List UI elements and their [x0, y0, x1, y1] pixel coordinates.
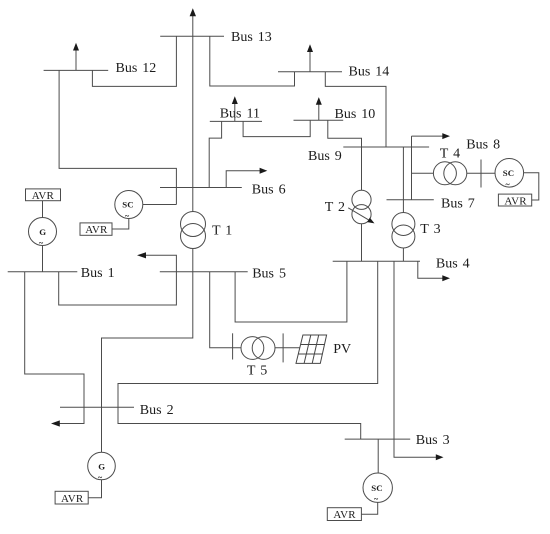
wire SC6 to AVR [112, 219, 129, 230]
wire T1 to Bus 5 [192, 249, 194, 272]
bus bar Bus 1 [8, 271, 78, 273]
wire G1 to Bus 1 [42, 246, 44, 272]
bus bar Bus 3 [345, 438, 411, 440]
svg-text:Bus 2: Bus 2 [140, 403, 174, 418]
svg-text:Bus 5: Bus 5 [252, 267, 286, 282]
svg-text:Bus 8: Bus 8 [466, 138, 500, 153]
isolator tick left of T5 [232, 333, 234, 359]
transformer T4 [433, 162, 456, 185]
svg-text:Bus 4: Bus 4 [436, 257, 470, 272]
wire Bus 12 to Bus 13 [92, 36, 176, 86]
transformer T2 [352, 190, 371, 209]
svg-text:AVR: AVR [504, 195, 527, 207]
wire Bus 13 to Bus 14 [210, 36, 295, 86]
svg-text:PV: PV [333, 342, 351, 357]
svg-text:T 1: T 1 [212, 224, 232, 239]
wire SC lead to Bus 6 [143, 204, 177, 206]
bus bar Bus 6 [160, 187, 242, 189]
bus bar Bus 11 [210, 120, 262, 122]
bus bar Bus 13 [160, 35, 224, 37]
wire Bus 5 to Bus 2 and G2 [102, 272, 193, 452]
wire Bus 5 to T5 [210, 272, 241, 348]
bus bar Bus 10 [294, 119, 344, 121]
wire Bus 4 to Bus 3 with right arrow [394, 261, 438, 457]
svg-text:Bus 14: Bus 14 [349, 65, 390, 80]
arrow top of feeder [190, 8, 196, 16]
wire Bus 1 to Bus 5 with left arrow [59, 255, 177, 305]
svg-text:Bus 7: Bus 7 [441, 197, 475, 212]
transformer T1 [181, 212, 206, 237]
bus bar Bus 4 [333, 260, 420, 262]
wire Bus 11 to Bus 10 [243, 120, 310, 136]
arrow up at Bus 11 [234, 102, 236, 121]
wire Bus 5 to Bus 4 [235, 261, 347, 322]
arrow up at Bus 10 [318, 103, 320, 120]
arrow right at Bus 6 [226, 171, 261, 188]
generator G at Bus 1 [29, 218, 57, 246]
wire SC8 to AVR [524, 173, 539, 200]
wire AVR1 to G1 [42, 201, 44, 218]
svg-text:SC: SC [371, 483, 382, 493]
wire Bus 9 to T3 [402, 147, 404, 213]
svg-text:Bus 13: Bus 13 [231, 30, 272, 45]
svg-text:AVR: AVR [85, 224, 108, 236]
svg-text:Bus 12: Bus 12 [116, 61, 157, 76]
bus bar Bus 2 [60, 406, 134, 408]
bus bar Bus 8 (vertical) [480, 160, 482, 188]
wire SC3 to AVR [361, 502, 377, 514]
bus bar Bus 14 [278, 71, 342, 73]
wire Bus 10 to T2 [328, 120, 362, 190]
bus bar Bus 5 [160, 271, 248, 273]
bus bar Bus 12 [44, 69, 109, 71]
svg-text:Bus 6: Bus 6 [252, 182, 286, 197]
synchronous condenser SC at Bus 3 [363, 473, 392, 502]
svg-text:Bus 1: Bus 1 [81, 266, 115, 281]
svg-text:Bus 9: Bus 9 [308, 149, 342, 164]
wire long vertical feeder with top arrow (Bus 13 / Bus 6 / T1) [192, 16, 194, 212]
tap arrow through T2 [348, 208, 369, 221]
arrow right at Bus 4 [418, 261, 444, 278]
transformer T5 [241, 337, 264, 360]
AVR box for SC6 [80, 223, 112, 235]
bus bar Bus 7 [387, 199, 434, 201]
PV array panel [296, 335, 327, 363]
svg-text:G: G [39, 227, 46, 237]
AVR box for SC8 [498, 194, 531, 206]
svg-text:AVR: AVR [32, 190, 55, 202]
arrow up at Bus 14 [309, 50, 311, 72]
svg-text:Bus 11: Bus 11 [220, 106, 260, 121]
wire T2 to Bus 4 [361, 224, 363, 261]
svg-text:T 2: T 2 [325, 200, 345, 215]
wire G2 to AVR [88, 480, 101, 498]
wire T3 to Bus 4 [402, 248, 404, 261]
svg-text:AVR: AVR [61, 493, 84, 505]
transformer T3 [392, 213, 415, 236]
svg-text:T 5: T 5 [247, 364, 267, 379]
svg-text:SC: SC [503, 168, 514, 178]
svg-text:T 3: T 3 [420, 222, 440, 237]
synchronous condenser SC at Bus 8 [495, 159, 524, 188]
wire Bus 9 / Bus 7 riser with right arrow [412, 136, 445, 200]
wire T5 to PV [275, 347, 300, 349]
synchronous condenser SC at Bus 6 [115, 191, 143, 219]
svg-text:G: G [98, 461, 105, 471]
isolator tick right of T5 [282, 333, 284, 362]
svg-text:SC: SC [122, 200, 133, 210]
svg-text:Bus 3: Bus 3 [416, 433, 450, 448]
wire Bus 11 to Bus 6 [209, 121, 221, 187]
wire Bus 3 to SC3 [377, 439, 379, 473]
AVR box for G1 [26, 189, 61, 201]
wire Bus 1 to Bus 2 with left arrow [25, 272, 84, 424]
arrow up at Bus 12 [75, 48, 77, 70]
wire T4 to Bus 8 bar [467, 172, 495, 174]
wire T4 left lead [412, 172, 434, 174]
AVR box for G2 [55, 491, 88, 504]
wire Bus 14 to Bus 9 [325, 72, 386, 147]
svg-text:Bus 10: Bus 10 [335, 107, 376, 122]
svg-text:AVR: AVR [333, 509, 356, 521]
AVR box for SC3 [327, 508, 361, 521]
bus bar Bus 9 [343, 146, 429, 148]
svg-text:T 4: T 4 [440, 146, 460, 161]
wire Bus 12 down to Bus 6 / SC lead [59, 70, 176, 204]
wire Bus 4 to Bus 2 to Bus 3 [118, 261, 378, 439]
generator G at Bus 2 [88, 452, 116, 480]
